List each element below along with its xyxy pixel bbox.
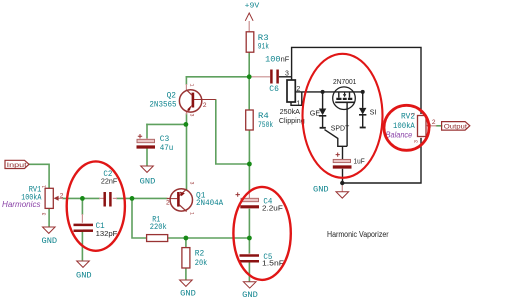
- svg-text:2: 2: [296, 86, 300, 93]
- svg-text:Clipping: Clipping: [279, 116, 305, 125]
- svg-text:GND: GND: [42, 236, 58, 246]
- svg-text:C6: C6: [269, 85, 279, 94]
- svg-text:2N404A: 2N404A: [196, 199, 223, 208]
- svg-text:132pF: 132pF: [96, 229, 118, 238]
- svg-text:1uF: 1uF: [354, 156, 366, 165]
- svg-text:R4: R4: [258, 112, 269, 121]
- svg-text:3: 3: [414, 140, 420, 143]
- svg-text:250kA: 250kA: [280, 107, 301, 116]
- svg-text:GND: GND: [242, 290, 258, 300]
- svg-text:GND: GND: [140, 177, 156, 187]
- svg-text:GE: GE: [310, 109, 321, 118]
- svg-text:Harmonic Vaporizer: Harmonic Vaporizer: [327, 230, 389, 239]
- svg-text:1: 1: [42, 185, 48, 188]
- svg-text:3: 3: [42, 212, 48, 215]
- svg-text:1: 1: [189, 212, 195, 215]
- svg-text:Harmonics: Harmonics: [2, 200, 41, 209]
- svg-text:Output: Output: [444, 124, 467, 131]
- svg-text:Input: Input: [7, 162, 27, 169]
- svg-text:3: 3: [189, 114, 195, 117]
- svg-text:GND: GND: [313, 185, 329, 195]
- svg-text:2: 2: [432, 119, 436, 126]
- svg-text:SI: SI: [370, 108, 377, 117]
- svg-text:750k: 750k: [258, 121, 273, 130]
- svg-text:C3: C3: [160, 135, 170, 144]
- svg-text:1: 1: [411, 113, 417, 116]
- svg-text:2: 2: [166, 200, 170, 207]
- svg-text:2N7001: 2N7001: [333, 79, 356, 86]
- svg-text:R2: R2: [195, 250, 205, 259]
- svg-text:3: 3: [189, 182, 195, 185]
- svg-text:20k: 20k: [195, 259, 208, 268]
- svg-text:2.2uF: 2.2uF: [262, 204, 283, 213]
- svg-text:2N3565: 2N3565: [149, 101, 176, 110]
- svg-text:1.5nF: 1.5nF: [262, 258, 285, 267]
- svg-text:GND: GND: [76, 270, 92, 280]
- svg-text:SPDT: SPDT: [331, 123, 350, 132]
- svg-text:91k: 91k: [258, 42, 269, 51]
- svg-text:1: 1: [189, 84, 195, 87]
- svg-text:22nF: 22nF: [101, 177, 118, 186]
- svg-text:100kA: 100kA: [393, 121, 416, 131]
- svg-text:nF: nF: [281, 55, 290, 64]
- svg-text:2: 2: [203, 102, 207, 109]
- svg-text:+9V: +9V: [245, 2, 261, 10]
- svg-text:2: 2: [60, 192, 64, 199]
- svg-text:220k: 220k: [150, 223, 167, 232]
- svg-text:47u: 47u: [160, 144, 174, 153]
- svg-text:Balance: Balance: [386, 131, 413, 140]
- svg-text:Q2: Q2: [167, 92, 177, 101]
- svg-text:GND: GND: [180, 289, 196, 299]
- svg-text:1: 1: [296, 101, 300, 108]
- svg-text:100: 100: [265, 56, 281, 65]
